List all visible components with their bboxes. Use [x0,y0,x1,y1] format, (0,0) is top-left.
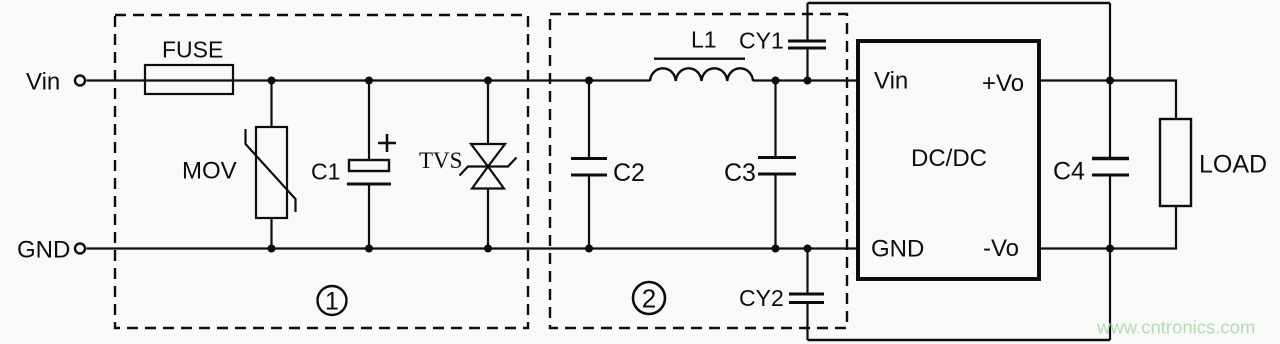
svg-text:L1: L1 [691,27,717,53]
svg-text:www.cntronics.com: www.cntronics.com [1096,317,1255,338]
junction dot C3 bottom [772,245,780,253]
input terminal GND [75,244,85,254]
svg-text:+Vo: +Vo [982,70,1024,97]
junction dot C1 top [365,77,373,85]
svg-text:C2: C2 [613,159,645,187]
svg-text:LOAD: LOAD [1199,151,1267,179]
svg-text:C3: C3 [724,159,756,187]
junction dot +Vo / C4 [1106,77,1114,85]
svg-text:MOV: MOV [182,158,237,185]
svg-text:2: 2 [642,284,656,314]
inductor L1 [650,59,753,81]
svg-text:C1: C1 [311,159,340,185]
svg-text:CY2: CY2 [739,285,784,311]
wire top link rail (CY1 to output) [808,2,1111,4]
capacitor C2 [571,81,607,248]
resistor LOAD [1160,119,1191,206]
svg-text:FUSE: FUSE [162,37,223,63]
wire top rail after inductor to DC/DC Vin pin [753,79,858,81]
capacitor C1 (polarized) [347,81,391,248]
junction dot -Vo / C4 [1106,245,1114,253]
wire right link column [1109,3,1111,340]
TVS diode (bidirectional) [460,81,517,248]
junction dot TVS top [484,77,492,85]
svg-text:Vin: Vin [874,68,908,95]
svg-text:GND: GND [17,237,70,264]
varistor MOV [246,81,296,248]
wire top input rail [87,79,651,81]
dashed box section 1 [115,15,528,328]
C1 polarity plus sign [378,134,396,152]
svg-text:1: 1 [325,288,339,316]
section number 1 [318,286,347,316]
junction dot CY1 bottom node [804,77,812,85]
junction dot CY2 top node [804,245,812,253]
junction dot C2 top [585,77,593,85]
capacitor CY2 [789,248,824,340]
capacitor C4 [1092,159,1129,176]
wire bottom GND rail [87,247,859,249]
capacitor CY1 [788,3,826,81]
wire -Vo output [1039,206,1176,249]
junction dot C2 bottom [585,245,593,253]
capacitor C3 [758,81,796,248]
junction dot C1 bottom [365,245,373,253]
svg-text:-Vo: -Vo [983,235,1019,262]
svg-text:GND: GND [871,236,924,263]
wire +Vo output [1039,81,1176,120]
svg-text:TVS: TVS [419,148,462,173]
fuse FUSE [145,65,233,94]
junction dot MOV bottom [268,245,276,253]
junction dot TVS bottom [484,245,492,253]
svg-text:CY1: CY1 [739,28,784,54]
svg-text:Vin: Vin [26,69,60,96]
svg-text:C4: C4 [1053,158,1085,186]
wire bottom link rail (CY2 to output) [808,339,1111,341]
junction dot MOV top [268,77,276,85]
junction dot C3 top [772,77,780,85]
DC/DC converter U1 [858,41,1039,279]
input terminal Vin [75,76,85,86]
svg-text:DC/DC: DC/DC [911,145,987,172]
section number 2 [633,282,665,314]
dashed box section 2 [550,14,847,328]
